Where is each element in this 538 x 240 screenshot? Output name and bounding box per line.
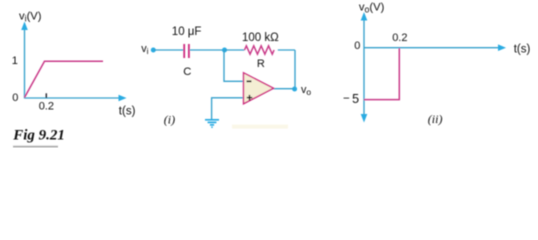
wire input node to capacitor [153,49,183,51]
junction node dot (inverting input node) [222,48,227,53]
svg-text:10 μF: 10 μF [172,26,202,38]
op-amp U1 triangle [244,73,274,104]
svg-text:0.2: 0.2 [392,32,407,44]
wire non-inverting input to ground [212,98,244,119]
left graph: y-axis vi(V) [21,22,28,99]
svg-text:t(s): t(s) [514,43,531,55]
svg-text:t(s): t(s) [119,106,136,118]
svg-text:100 kΩ: 100 kΩ [242,32,279,44]
svg-text:0: 0 [354,40,360,52]
wire junction down to inverting input [224,50,244,81]
left graph: vi ramp waveform [25,61,104,97]
ground symbol [205,120,219,127]
wire capacitor to junction node [190,49,225,51]
wire junction to resistor [225,49,245,51]
right graph: vo step waveform [364,48,400,99]
right graph: x-axis t(s) [364,44,506,51]
right graph: y-axis vo(V) with up and down arrows [361,12,368,123]
wire resistor to top-right corner [278,49,295,51]
svg-text:R: R [257,58,265,70]
svg-text:0: 0 [12,92,18,104]
svg-text:0.2: 0.2 [39,101,54,113]
svg-text:C: C [183,66,191,78]
wire op-amp output to node [273,88,295,90]
resistor R 100k zigzag [245,46,275,54]
svg-text:vi: vi [141,43,148,56]
svg-text:vo: vo [301,84,311,97]
svg-text:vi(V): vi(V) [19,11,42,24]
output node dot [292,87,297,92]
op-amp inverting input minus sign [247,80,252,82]
svg-text:(ii): (ii) [428,112,443,126]
cut-off next text line smudge [13,146,58,148]
svg-text:(i): (i) [164,113,175,127]
capacitor C1 plates 10uF [184,44,189,58]
feedback wire right vertical [294,50,296,89]
svg-text:−5: −5 [343,92,359,106]
left graph: x-axis t(s) [25,95,127,102]
op-amp non-inverting input plus sign [247,95,252,100]
left graph: tick 0.2 [45,93,47,98]
svg-text:vo(V): vo(V) [359,2,385,15]
svg-text:Fig 9.21: Fig 9.21 [12,127,65,143]
svg-text:1: 1 [12,55,18,67]
scan artifact cream streak [232,125,288,129]
circuit: input node dot [151,48,156,53]
